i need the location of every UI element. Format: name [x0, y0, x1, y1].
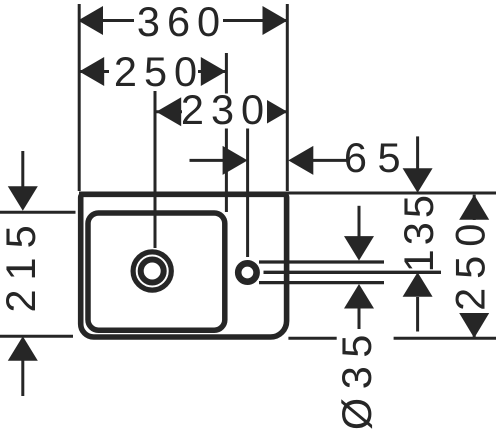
svg-text:65: 65: [344, 134, 411, 181]
drain outer ring: [133, 252, 171, 290]
arrowhead 250 right: [201, 57, 226, 86]
reference line basin front right, right segment: [394, 337, 496, 340]
label Ø35 vertical: [340, 332, 375, 429]
dimension 215 bottom tail: [21, 360, 24, 396]
wall line: [79, 192, 496, 195]
extension line tap centre (x=247.5): [246, 127, 249, 257]
label 65: [347, 140, 402, 175]
label 360: [134, 3, 223, 40]
svg-text:250: 250: [447, 215, 494, 311]
tap hole: [238, 263, 256, 281]
arrowhead 250 left: [79, 57, 104, 86]
extension line drain centre (x=155): [154, 91, 157, 248]
dimension line 250 vertical: [473, 195, 476, 338]
reference line basin front (left margin): [0, 335, 73, 338]
dimension line 230: [156, 110, 287, 113]
dimension 135 top tail: [416, 136, 419, 170]
dimension 65 right tail: [313, 159, 349, 162]
inner bowl outline: [88, 213, 225, 330]
arrowhead 65 left (points right at tap centre): [223, 146, 248, 175]
dimension line 250 horizontal: [79, 70, 226, 73]
arrowhead 215 bottom: [8, 336, 38, 361]
arrowhead 65 right (points left at basin edge): [288, 146, 313, 175]
reference line basin front right, left segment: [288, 337, 336, 340]
svg-text:215: 215: [0, 216, 44, 312]
reference line bowl top (left margin): [0, 211, 76, 214]
tap pipe line B (tap centreline): [264, 271, 442, 274]
arrowhead 360 left: [78, 6, 103, 35]
svg-text:230: 230: [181, 86, 271, 133]
dimension 135 bottom tail: [416, 297, 419, 332]
arrowhead 230 right: [262, 97, 287, 126]
arrowhead 250 vertical bottom: [459, 313, 489, 338]
label 230: [182, 94, 267, 129]
arrowhead Ø35 bottom: [344, 284, 374, 309]
arrowhead Ø35 top: [344, 236, 374, 261]
tap pipe line C: [259, 281, 384, 284]
arrowhead 230 left: [156, 97, 181, 126]
label 250 vertical: [458, 220, 489, 313]
svg-text:135: 135: [395, 191, 442, 272]
arrowhead 360 right: [263, 6, 288, 35]
label 250 horizontal: [109, 54, 198, 90]
extension line bowl right (x=226): [225, 53, 228, 212]
drain inner ring: [141, 260, 164, 283]
extension line left (x=79, basin left edge): [78, 4, 81, 191]
dimension 65 left tail: [190, 159, 225, 162]
dimension Ø35 bottom tail: [358, 308, 361, 330]
label 215 vertical: [7, 221, 38, 315]
dimension Ø35 top tail: [358, 206, 361, 237]
dimension 215 top tail: [21, 151, 24, 187]
tap pipe line A: [259, 260, 384, 263]
arrowhead 135 top (points down at wall): [403, 168, 433, 193]
basin outer outline: [81, 194, 287, 337]
arrowhead 135 bottom (points up at tap centreline): [403, 272, 433, 297]
arrowhead 215 top: [8, 186, 38, 211]
svg-text:Ø35: Ø35: [333, 326, 380, 429]
label 135 vertical: [405, 195, 435, 270]
extension line right (x=287, basin right edge): [286, 4, 289, 191]
arrowhead 250 vertical top: [459, 195, 489, 220]
svg-text:360: 360: [137, 0, 227, 45]
dimension line 360: [78, 19, 288, 22]
